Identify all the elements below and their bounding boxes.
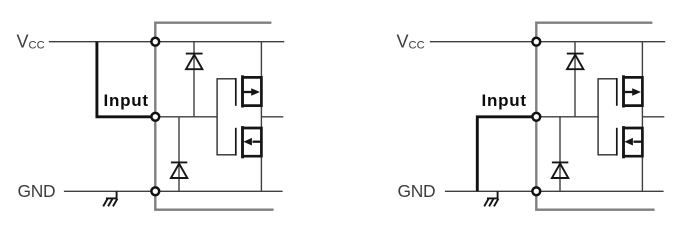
wire chip-boundary bus (left circuit) xyxy=(155,23,273,210)
transistor Q1 PMOS (left circuit) xyxy=(236,75,262,107)
wire gate bracket joining PMOS/NMOS gates (right circuit) xyxy=(598,79,617,155)
wire gate bracket joining PMOS/NMOS gates (left circuit) xyxy=(217,79,236,155)
node Vcc terminal (left circuit) xyxy=(151,38,159,46)
wire input node to gates (right circuit) xyxy=(536,116,598,118)
wire PMOS drain / NMOS drain to output (left circuit) xyxy=(260,106,262,128)
svg-text:VCC: VCC xyxy=(17,31,45,51)
diode D2 GND-to-input clamp (left circuit) xyxy=(171,162,187,178)
wire PMOS source to Vcc (left circuit) xyxy=(260,42,262,78)
wire thick input tie to GND (right circuit) xyxy=(477,117,536,192)
diode D1 input-to-Vcc clamp (right circuit) xyxy=(567,54,584,70)
wire bottom diode branch (right circuit) xyxy=(559,117,561,192)
wire chip-boundary bus (right circuit) xyxy=(536,23,654,210)
ground chassis symbol (left circuit) xyxy=(103,191,117,206)
wire Vcc rail (right circuit) xyxy=(430,41,665,43)
wire inverter output (left circuit) xyxy=(261,116,283,118)
transistor Q2 NMOS (left circuit) xyxy=(236,126,262,158)
node input terminal (right circuit) xyxy=(532,113,540,121)
svg-text:VCC: VCC xyxy=(397,31,425,51)
node GND terminal (left circuit) xyxy=(151,187,159,195)
wire top diode branch (left circuit) xyxy=(193,42,195,117)
node Vcc terminal (right circuit) xyxy=(532,38,540,46)
transistor Q1 PMOS (right circuit) xyxy=(617,75,643,107)
wire PMOS drain / NMOS drain to output (right circuit) xyxy=(641,106,643,128)
wire NMOS source to GND (left circuit) xyxy=(260,156,262,191)
node GND terminal (right circuit) xyxy=(532,187,540,195)
svg-text:GND: GND xyxy=(18,181,56,201)
wire GND rail (right circuit) xyxy=(445,190,664,192)
wire inverter output (right circuit) xyxy=(642,116,664,118)
wire GND rail (left circuit) xyxy=(64,190,283,192)
svg-text:Input: Input xyxy=(482,91,527,110)
diode D1 input-to-Vcc clamp (left circuit) xyxy=(186,54,203,70)
wire PMOS source to Vcc (right circuit) xyxy=(641,42,643,78)
ground chassis symbol (right circuit) xyxy=(484,191,498,206)
wire NMOS source to GND (right circuit) xyxy=(641,156,643,191)
node input terminal (left circuit) xyxy=(151,113,159,121)
wire input node to gates (left circuit) xyxy=(155,116,217,118)
wire top diode branch (right circuit) xyxy=(574,42,576,117)
svg-text:GND: GND xyxy=(398,181,436,201)
wire thick input tie to Vcc (left circuit) xyxy=(97,42,155,117)
wire bottom diode branch (left circuit) xyxy=(178,117,180,192)
diode D2 GND-to-input clamp (right circuit) xyxy=(552,162,568,178)
svg-text:Input: Input xyxy=(104,91,149,110)
wire Vcc rail (left circuit) xyxy=(49,41,284,43)
transistor Q2 NMOS (right circuit) xyxy=(617,126,643,158)
